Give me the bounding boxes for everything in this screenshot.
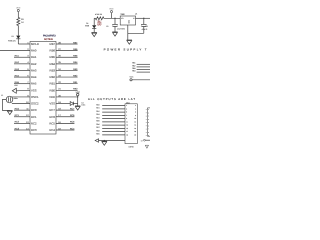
wire rail to R5	[94, 17, 95, 19]
svg-text:RC4: RC4	[49, 128, 55, 132]
svg-text:RB2: RB2	[132, 64, 135, 67]
wire VCC to edge	[132, 79, 150, 81]
wire net RB3 pin 24	[56, 69, 78, 71]
wire crystal to OSC1 pin 9	[12, 96, 30, 98]
ground arrow left CN1	[95, 139, 98, 142]
svg-text:RD3: RD3	[96, 113, 99, 116]
IC pin numbers left 1-14	[26, 41, 29, 130]
resistor R5 470E	[95, 17, 103, 20]
svg-text:VCC: VCC	[16, 6, 21, 9]
svg-text:100n: 100n	[81, 104, 85, 107]
wire crystal to OSC2 pin 10	[12, 103, 30, 105]
svg-text:RA0: RA0	[31, 49, 37, 53]
wire net RB4 pin 25	[56, 63, 78, 65]
junction VDD node	[77, 96, 78, 97]
wire net RB2 pin 23	[56, 76, 78, 78]
ground D2	[92, 32, 97, 36]
svg-text:RB4: RB4	[50, 62, 56, 66]
diode D4	[70, 102, 73, 106]
wire ladder RD0 to CN1	[102, 105, 125, 107]
junction C1	[114, 18, 115, 19]
svg-text:RC7: RC7	[49, 108, 55, 112]
wire to pin 1 MCLR	[18, 43, 30, 45]
IC pin names left	[31, 42, 39, 132]
svg-text:RB3: RB3	[132, 67, 135, 70]
wire net RA4 to pin 6	[14, 76, 30, 78]
wire ladder RD8 to CN1	[102, 131, 125, 133]
svg-text:RA3: RA3	[31, 68, 37, 72]
IC pin names right	[49, 42, 55, 132]
wire net RC0 to pin 11	[14, 109, 30, 111]
wire stub to ground	[103, 140, 105, 143]
svg-text:RD9: RD9	[96, 133, 99, 136]
svg-text:VSS: VSS	[31, 88, 37, 92]
svg-text:U1: U1	[135, 12, 137, 15]
svg-text:RD6: RD6	[96, 123, 99, 126]
svg-text:RB1: RB1	[132, 62, 135, 65]
svg-text:7805: 7805	[120, 13, 124, 16]
capacitor C2 47uF/25V	[141, 24, 147, 26]
IC pin numbers right 28-15	[58, 41, 61, 130]
svg-text:PIC16F873: PIC16F873	[43, 35, 56, 38]
svg-text:47uF/25V: 47uF/25V	[117, 27, 126, 30]
svg-text:RB6: RB6	[50, 49, 56, 53]
ground crystal	[7, 110, 12, 114]
svg-text:RD4: RD4	[96, 116, 99, 119]
svg-text:RC2: RC2	[31, 121, 37, 125]
wire ladder RD9 to CN1	[102, 134, 125, 136]
wire net RA1 to pin 3	[14, 56, 30, 58]
wire VCC to R1	[17, 12, 19, 18]
svg-text:OSC2: OSC2	[31, 102, 39, 106]
wire net RB4 to edge	[137, 71, 150, 73]
junction CN1 gnd	[104, 140, 105, 141]
capacitor C1 47uF/25V	[112, 24, 118, 26]
wire D2 to ground	[93, 28, 95, 32]
wire net RA5 to pin 7	[14, 83, 30, 85]
wire down to D2	[93, 18, 95, 25]
ground mark bottom right	[145, 145, 148, 148]
svg-text:47uF/2: 47uF/2	[142, 28, 148, 31]
VCC top-left	[16, 6, 21, 11]
wire C1 to ground	[114, 27, 116, 32]
wire net RB6 pin 27	[56, 50, 78, 52]
wire net RB1 to edge	[137, 63, 150, 65]
svg-text:DIP20: DIP20	[129, 145, 134, 148]
svg-text:D1: D1	[11, 35, 13, 38]
wire D1 to MCLR node	[17, 39, 19, 44]
wire R5 to regulator	[104, 17, 120, 19]
connector CN1 DIP20	[125, 104, 137, 144]
ground C1	[112, 32, 117, 36]
svg-text:RD0: RD0	[96, 103, 99, 106]
wire net RC4 pin 15	[56, 129, 74, 131]
wire net RA2 to pin 4	[14, 63, 30, 65]
wire ladder RD2 to CN1	[102, 111, 125, 113]
svg-text:RB3: RB3	[50, 68, 56, 72]
wire crystal case loop	[2, 100, 9, 111]
wire D4 to gnd node	[74, 103, 78, 105]
svg-text:RC3: RC3	[31, 128, 37, 132]
wire C2 gnd to regulator gnd	[128, 32, 144, 34]
wire ladder RD6 to CN1	[102, 124, 125, 126]
wire VI to input edge	[136, 17, 151, 19]
svg-text:RD1: RD1	[96, 107, 99, 110]
wire net RA0 from edge to pin 2	[0, 50, 30, 52]
wire net RB5 pin 26	[56, 56, 78, 58]
wire VCC drop to rail	[111, 13, 113, 18]
wire net RB2 to edge	[137, 66, 150, 68]
wire net RC2 to pin 13	[14, 122, 30, 124]
CN2 pin numbers	[148, 109, 149, 137]
svg-text:RC5: RC5	[49, 121, 55, 125]
wire net RB3 to edge	[137, 69, 150, 71]
svg-text:470E R5: 470E R5	[95, 13, 102, 16]
svg-text:RA5: RA5	[31, 82, 37, 86]
svg-text:RA1: RA1	[31, 55, 37, 59]
CN2 pin stubs	[146, 110, 148, 136]
svg-text:LED: LED	[99, 21, 102, 26]
svg-text:RB4: RB4	[132, 70, 135, 73]
wire net RC7 pin 18	[56, 109, 74, 111]
svg-text:ALL OUTPUTS ARE LAT: ALL OUTPUTS ARE LAT	[88, 98, 136, 101]
ground CN1	[102, 141, 107, 145]
wire ladder RD1 to CN1	[102, 108, 125, 110]
svg-text:RB1: RB1	[50, 82, 56, 86]
wire net RB7 pin 28	[56, 43, 78, 45]
wire net RC1 to pin 12	[14, 116, 30, 118]
svg-text:RB0: RB0	[50, 88, 56, 92]
wire node down	[77, 97, 79, 106]
resistor R1 1K	[17, 18, 20, 26]
connector CN2 cut at edge	[147, 108, 150, 136]
svg-text:VCC: VCC	[109, 7, 114, 10]
diode D1 PWR-ON	[16, 36, 20, 39]
regulator U1 7805	[120, 16, 135, 25]
wire regulator GND pin down	[127, 25, 129, 40]
svg-text:RA4: RA4	[31, 75, 37, 79]
junction C2	[143, 18, 144, 19]
wire net RA3 to pin 5	[14, 69, 30, 71]
wire VSS pin 8	[16, 89, 30, 91]
svg-text:RD7: RD7	[96, 126, 99, 129]
svg-text:CN1: CN1	[126, 101, 130, 104]
svg-text:RA2: RA2	[31, 62, 37, 66]
CN1 pin numbers	[126, 104, 136, 136]
wire ladder RD5 to CN1	[102, 121, 125, 123]
wire net RC6 pin 17	[56, 116, 74, 118]
crystal Y1	[6, 96, 13, 103]
svg-text:PWR-ON: PWR-ON	[8, 40, 16, 43]
svg-text:POWER SUPPLY T: POWER SUPPLY T	[104, 47, 148, 51]
svg-text:C2: C2	[145, 25, 147, 28]
svg-text:NOTE:B: NOTE:B	[44, 38, 53, 41]
svg-text:RB2: RB2	[50, 75, 56, 79]
wire VDD pin 20	[56, 96, 78, 98]
wire to C1	[114, 18, 116, 24]
VCC power rail	[109, 7, 114, 12]
wire ladder RD3 to CN1	[102, 114, 125, 116]
svg-text:RC0: RC0	[31, 108, 37, 112]
wire R1 to D1	[17, 26, 19, 36]
svg-text:VDD: VDD	[49, 95, 55, 99]
wire net RB1 pin 22	[56, 83, 78, 85]
wire VSS pin 19	[56, 103, 70, 105]
ground power supply	[127, 40, 132, 44]
svg-text:R1: R1	[21, 18, 23, 21]
wire C2 down	[143, 27, 145, 34]
wire net RB0 pin 21	[56, 89, 78, 91]
svg-text:RC1: RC1	[31, 115, 37, 119]
wire CN1 ground run	[99, 140, 126, 142]
svg-text:RD5: RD5	[96, 120, 99, 123]
svg-text:VSS: VSS	[49, 102, 55, 106]
svg-text:D2: D2	[86, 22, 88, 25]
svg-text:4MHz: 4MHz	[13, 97, 18, 100]
svg-text:OSC1: OSC1	[31, 95, 39, 99]
svg-text:RB5: RB5	[50, 55, 56, 59]
wire net RC5 pin 16	[56, 122, 74, 124]
svg-text:C1: C1	[106, 25, 108, 28]
wire VCC drop	[77, 96, 79, 97]
wire to C2	[143, 18, 145, 24]
wire ladder RD7 to CN1	[102, 127, 125, 129]
ground arrow left on VSS pin 8	[12, 88, 16, 93]
svg-text:RB7: RB7	[50, 42, 56, 46]
svg-text:RD2: RD2	[96, 110, 99, 113]
IC U10 PIC16F873 body	[30, 42, 56, 135]
svg-text:17: 17	[141, 140, 143, 143]
wire net RC3 to pin 14	[14, 129, 30, 131]
LED D2 red	[92, 25, 96, 28]
wire ladder RD4 to CN1	[102, 118, 125, 120]
svg-text:MCLR: MCLR	[31, 42, 39, 46]
ground VSS node	[75, 106, 80, 110]
svg-text:RC6: RC6	[49, 115, 55, 119]
svg-text:Y1: Y1	[1, 94, 3, 97]
svg-text:RD8: RD8	[96, 129, 99, 132]
